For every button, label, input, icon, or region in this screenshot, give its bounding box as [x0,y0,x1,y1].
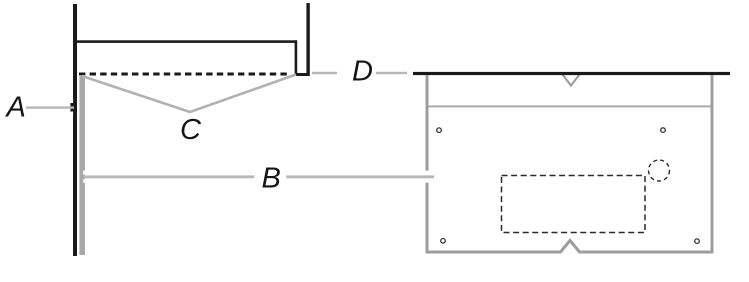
gray V brace [82,75,296,113]
A tick mark [70,103,73,112]
svg-text:A: A [5,92,26,124]
svg-text:B: B [262,162,281,194]
bracket top horizontal [77,40,297,43]
A leader line [26,106,74,108]
white break below B start [83,179,85,183]
svg-text:C: C [180,114,202,146]
D leader line left segment [312,72,337,74]
B leader line right segment [286,175,434,178]
cover right edge [711,75,714,254]
top center notch [563,75,580,86]
white break above B start [83,170,85,174]
dashed fold line [79,73,287,76]
dashed knockout circle [649,160,670,181]
cover left edge upper segment [426,75,429,171]
screw hole top-right [661,128,666,133]
cover left edge lower segment [426,183,429,254]
screw hole bottom-left [441,239,446,244]
screw hole top-left [437,128,442,133]
white break above A tick [70,99,73,103]
bracket foot horizontal [295,73,309,76]
wall line (left side view) [73,4,77,256]
B leader line left segment [84,175,254,178]
screw hole bottom-right [695,239,700,244]
bracket right vertical [295,40,298,75]
D leader line right segment [376,72,407,74]
gray fascia bar [79,75,85,255]
white break below A tick [70,111,73,115]
cover top black bar (plan view) [413,72,730,75]
dashed cutout rectangle [502,176,646,233]
svg-text:D: D [352,56,373,88]
tall post vertical [306,3,309,76]
cover bottom edge with center notch [426,241,714,253]
cover fold line [429,105,711,107]
